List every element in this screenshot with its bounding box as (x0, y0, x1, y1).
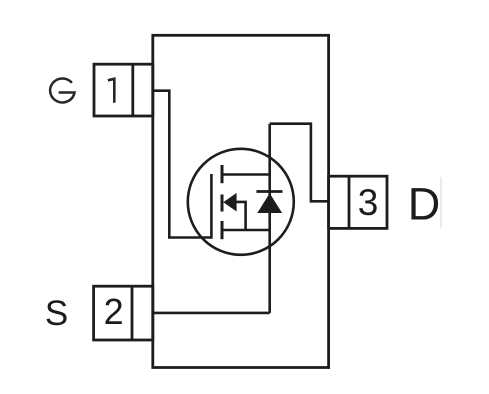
gate bar (210, 174, 213, 239)
body diode triangle (257, 193, 282, 213)
svg-text:D: D (408, 179, 441, 230)
pin 2 divider (131, 286, 134, 340)
drain stub (222, 173, 270, 176)
gate label G (50, 78, 74, 102)
pin 3 pad box (329, 176, 387, 228)
cursor artifact line (440, 177, 442, 228)
svg-text:2: 2 (104, 291, 124, 332)
body arrow head (223, 193, 236, 212)
MOSFET circle U1 (188, 149, 294, 255)
package outline (153, 35, 329, 367)
drain-source vertical wire through diode (268, 124, 271, 313)
svg-text:S: S (45, 294, 68, 333)
channel segment bottom (221, 221, 224, 239)
pin 3 divider (348, 176, 351, 228)
body connection line (235, 202, 246, 230)
pin 2 pad box (94, 286, 153, 340)
pin 1 divider (131, 64, 134, 116)
svg-text:3: 3 (358, 182, 379, 223)
source stub (222, 229, 270, 232)
channel segment top (221, 165, 224, 183)
channel segment middle (221, 195, 224, 212)
pin 1 label (108, 79, 114, 103)
source wire to pin 2 (153, 312, 270, 315)
body diode cathode bar (256, 190, 282, 193)
pin 1 pad box (94, 64, 153, 116)
gate wire from pin 1 (153, 91, 212, 238)
drain wire to pin 3 (270, 124, 329, 202)
